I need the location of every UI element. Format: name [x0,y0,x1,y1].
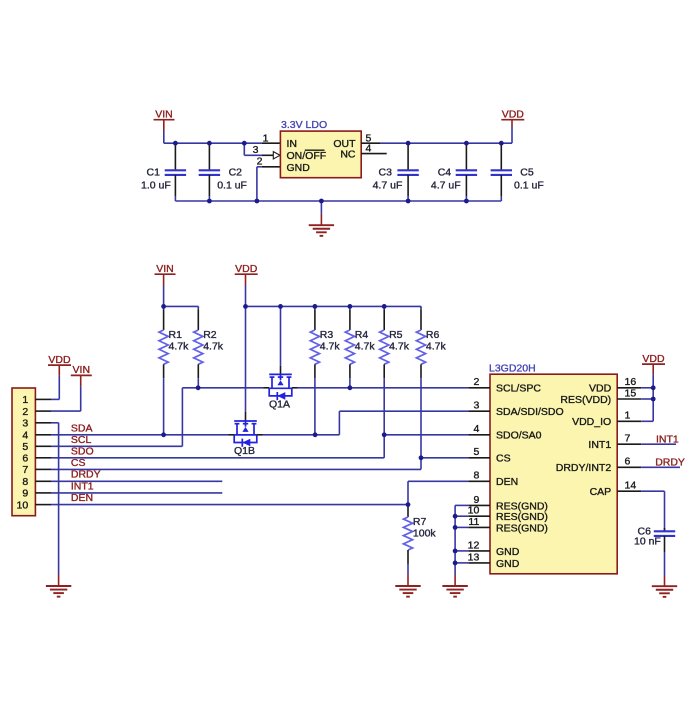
pin stub R4 top [349,306,351,330]
supply flag VIN-mid [155,263,176,275]
wire VIN bus [164,306,199,308]
svg-text:0.1 uF: 0.1 uF [217,179,247,191]
svg-text:SCL/SPC: SCL/SPC [496,383,541,395]
svg-text:4: 4 [22,430,28,442]
capacitor C3 [373,143,419,201]
IC left pin labels [496,383,564,570]
svg-text:4.7k: 4.7k [389,340,410,352]
pin stub R5 bottom + wire [383,364,385,435]
svg-text:4.7 uF: 4.7 uF [431,179,461,191]
svg-text:SDA: SDA [71,422,93,434]
wire SDO row [51,435,384,458]
wire CAP to C6 [641,491,664,531]
node junctions IC ground chain [453,514,458,566]
wire Q1A drain riser [280,306,282,374]
node junctions top rail [173,141,504,146]
wire GND rail top circuit [175,200,501,202]
svg-text:CAP: CAP [590,486,612,498]
pin 5 stub LDO OUT [361,132,380,144]
pin stub R1 bottom + wire to SDA [163,364,165,435]
resistor R7 [403,516,436,550]
wire VIN stem mid [163,274,165,306]
svg-text:DEN: DEN [496,476,518,488]
supply flag VDD-top [501,109,524,121]
svg-text:CS: CS [496,453,511,465]
svg-text:3: 3 [473,400,479,412]
svg-text:NC: NC [340,149,356,161]
wire SDA high right [257,411,469,435]
IC left pin numbers [468,376,480,563]
wire GND pin2 down [257,167,262,201]
capacitor C5 [491,143,544,201]
svg-text:R6: R6 [426,329,440,341]
svg-text:5: 5 [473,446,479,458]
capacitor C4 [431,143,477,201]
wire SCL row [51,388,182,447]
svg-text:C3: C3 [379,167,393,179]
svg-text:VDD: VDD [642,353,665,365]
svg-text:1: 1 [263,132,269,144]
svg-text:IN: IN [287,138,298,150]
supply flag VDD-right [642,353,665,365]
svg-text:VDD_IO: VDD_IO [572,416,611,428]
svg-text:VDD: VDD [235,263,258,275]
svg-text:RES(VDD): RES(VDD) [560,394,611,406]
wire ON/OFF branch [244,143,280,159]
svg-text:13: 13 [468,551,480,563]
wire Q1B drain riser [245,306,247,421]
pin 1 stub LDO IN [262,132,281,144]
pin stub R6 top [420,306,422,330]
wire VDD right riser [641,364,653,421]
wire CS row [51,458,421,470]
IC left pin stubs [468,388,490,563]
wire VDD stem mid [245,274,247,306]
svg-text:4.7 uF: 4.7 uF [373,179,403,191]
resistor R1 [159,329,189,364]
wire IC ground chain [455,505,468,585]
svg-text:R1: R1 [169,329,183,341]
wire DEN riser [408,481,468,504]
svg-text:10: 10 [17,499,29,511]
svg-text:C4: C4 [438,167,452,179]
svg-text:C1: C1 [147,167,161,179]
svg-text:5: 5 [22,441,28,453]
net labels SDA SCL SDO CS DRDY INT1 DEN [71,422,101,504]
svg-text:10: 10 [468,505,480,517]
pin 2 stub LDO GND [257,156,281,168]
svg-text:10 nF: 10 nF [634,536,661,548]
wire SDA row [51,434,229,436]
svg-text:3: 3 [253,144,259,156]
svg-text:4: 4 [366,143,372,155]
supply flag VIN-conn [71,364,92,376]
svg-text:R3: R3 [320,329,334,341]
wire VDD rail top [380,142,512,144]
wire ground stem top [320,201,322,225]
svg-text:6: 6 [22,453,28,465]
svg-text:4.7k: 4.7k [169,340,190,352]
regulator U2 3.3V LDO [280,119,361,178]
IC right pin stubs [617,388,641,491]
pin stub R5 top [383,306,385,330]
svg-text:14: 14 [625,480,637,492]
svg-text:C5: C5 [520,167,534,179]
ground J1-gnd [46,586,71,597]
svg-text:ON/OFF: ON/OFF [287,150,327,162]
svg-text:VDD: VDD [589,383,612,395]
pin 4 stub LDO NC [361,143,387,155]
wire VIN rail to IN [164,142,262,144]
pin stub R3 top [314,306,316,330]
pin stub R6 bottom + wire to CS [420,364,422,458]
svg-text:R2: R2 [203,329,217,341]
pin stub R1 top [163,306,165,330]
node junctions VDD right [651,385,656,401]
svg-text:VDD: VDD [48,354,71,366]
svg-text:DRDY/INT2: DRDY/INT2 [556,462,612,474]
svg-text:11: 11 [468,516,479,528]
wire DRDY net right [641,457,685,469]
svg-text:4.7k: 4.7k [355,340,376,352]
wire VDD bus [246,306,422,308]
svg-text:2: 2 [22,406,28,418]
ground top [309,225,334,236]
svg-text:9: 9 [22,488,28,500]
connector J1 pin numbers 1-10 [17,394,29,511]
wire INT1 net right [641,433,679,445]
svg-text:INT1: INT1 [656,433,679,445]
svg-text:CS: CS [71,457,86,469]
svg-text:C2: C2 [229,167,243,179]
svg-text:2: 2 [473,376,479,388]
node junctions bottom rail [207,199,469,204]
svg-text:GND: GND [496,546,520,558]
connector J1 pin stubs [35,399,51,504]
wire VIN stem top [163,120,165,144]
svg-text:SDO: SDO [71,446,94,458]
resistor R3 [310,329,340,364]
wire VDD stem top [511,120,513,144]
supply flag VDD-mid [235,263,258,275]
svg-text:0.1 uF: 0.1 uF [514,179,544,191]
svg-text:L3GD20H: L3GD20H [489,363,536,375]
svg-text:DRDY: DRDY [71,469,101,481]
resistor R2 [194,329,224,364]
wire VIN to pin2 [51,375,81,411]
svg-text:DRDY: DRDY [655,457,685,469]
ground R7-gnd [395,586,420,597]
pin stub R2 bottom + wire to SCL [197,364,199,388]
svg-text:1: 1 [22,394,28,406]
svg-text:RES(GND): RES(GND) [496,511,548,523]
svg-text:RES(GND): RES(GND) [496,522,548,534]
svg-text:SDA/SDI/SDO: SDA/SDI/SDO [496,406,564,418]
wire SDA high stub left [229,434,235,436]
capacitor C6 [634,525,675,586]
svg-text:3.3V LDO: 3.3V LDO [281,119,327,131]
svg-text:3: 3 [22,418,28,430]
svg-text:INT1: INT1 [588,439,611,451]
svg-text:SCL: SCL [71,434,92,446]
supply flag VIN-top [154,109,175,121]
wire SDO high right [384,434,468,436]
svg-text:15: 15 [625,387,637,399]
pin stub R7 top [407,505,409,517]
svg-text:1.0 uF: 1.0 uF [141,179,171,191]
svg-text:8: 8 [22,476,28,488]
capacitor C1 [141,143,186,201]
ground C6-gnd [652,586,677,597]
capacitor C2 [199,143,247,201]
svg-text:1: 1 [625,410,631,422]
wire VDD to pin1 [51,365,59,399]
resistor R4 [345,329,375,364]
resistor R5 [380,329,410,364]
svg-text:4.7k: 4.7k [203,340,224,352]
svg-text:R4: R4 [355,329,369,341]
svg-text:6: 6 [625,456,631,468]
IC U1 L3GD20H [489,363,617,574]
svg-text:Q1B: Q1B [234,445,255,457]
IC right pin labels [556,383,612,498]
svg-text:7: 7 [625,433,631,445]
svg-text:12: 12 [468,539,480,551]
svg-text:VIN: VIN [155,109,173,121]
svg-text:VIN: VIN [73,364,91,376]
svg-text:100k: 100k [413,527,437,539]
svg-text:4: 4 [473,423,479,435]
transistor Q1A [269,374,292,410]
supply flag VDD-conn [48,354,71,366]
svg-text:VIN: VIN [156,263,174,275]
pin stub R2 top [197,306,199,330]
pin stub R3 bottom + wire [314,364,316,435]
node junctions pull-up buses [161,304,386,309]
svg-text:GND: GND [496,558,520,570]
svg-text:8: 8 [473,470,479,482]
svg-text:GND: GND [287,162,311,174]
wire pin3 to ground [51,423,59,586]
svg-text:2: 2 [257,156,263,168]
wire DRDY row [51,480,222,482]
resistor R6 [416,329,446,364]
connector J1 [12,388,35,516]
svg-text:4.7k: 4.7k [320,340,341,352]
pin stub R7 bottom [407,550,409,586]
svg-text:VDD: VDD [502,109,525,121]
transistor Q1B [234,421,257,457]
IC right pin numbers [625,376,637,491]
wire SCL high left [182,387,269,389]
ground IC-gnd [442,586,467,597]
svg-text:4.7k: 4.7k [426,340,447,352]
svg-text:SDO/SA0: SDO/SA0 [496,430,542,442]
svg-text:7: 7 [22,464,28,476]
svg-text:16: 16 [625,376,637,388]
wire INT1 row [51,492,222,494]
node junctions signal rows [161,385,423,507]
svg-text:Q1A: Q1A [269,399,290,411]
wire DEN row [51,504,408,506]
wire SCL high right to pin2 [292,387,469,389]
wire CS high right [421,457,468,459]
pin stub R4 bottom + wire [349,364,351,388]
svg-text:R5: R5 [389,329,403,341]
svg-text:R7: R7 [413,516,427,528]
